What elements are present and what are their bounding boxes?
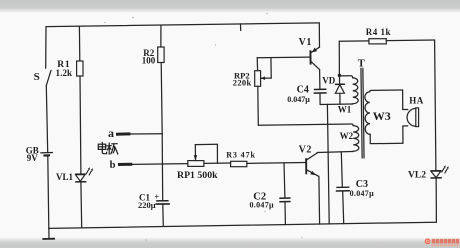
svg-text:R4 1k: R4 1k: [366, 27, 391, 37]
svg-text:100: 100: [142, 56, 156, 66]
svg-text:b: b: [110, 160, 116, 171]
svg-text:VD: VD: [322, 76, 335, 86]
svg-text:V2: V2: [299, 145, 312, 156]
svg-text:W1: W1: [338, 104, 352, 114]
svg-text:VL1: VL1: [56, 172, 74, 182]
svg-text:9V: 9V: [27, 153, 39, 163]
svg-text:W2: W2: [340, 131, 354, 141]
svg-text:T: T: [358, 59, 365, 70]
svg-text:0.047μ: 0.047μ: [350, 189, 374, 198]
svg-text:1.2k: 1.2k: [56, 68, 73, 78]
svg-text:R3 47k: R3 47k: [226, 151, 256, 160]
svg-text:0.047μ: 0.047μ: [287, 95, 310, 104]
svg-text:220μ: 220μ: [138, 200, 156, 210]
svg-text:220k: 220k: [233, 78, 252, 88]
svg-text:0.047μ: 0.047μ: [250, 201, 274, 210]
svg-text:RP1 500k: RP1 500k: [177, 170, 218, 181]
svg-text:VL2: VL2: [408, 171, 426, 181]
svg-text:W3: W3: [373, 109, 391, 123]
svg-text:a: a: [108, 126, 114, 140]
svg-text:S: S: [34, 71, 40, 83]
svg-text:V1: V1: [299, 37, 312, 48]
svg-text:HA: HA: [409, 95, 423, 105]
